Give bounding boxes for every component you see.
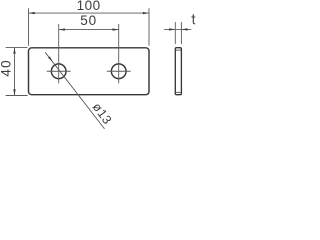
arrow right of 50 — [113, 28, 119, 30]
arrow bottom of 40 — [13, 89, 15, 95]
arrow right of 100 — [143, 12, 149, 14]
dimension 40 line — [14, 48, 16, 96]
side view top radius tangent line — [175, 49, 181, 51]
centerline vertical left hole / extension for 50 — [58, 24, 60, 83]
extension line top for 40 — [6, 47, 28, 49]
label t — [193, 14, 195, 24]
thickness dimension line — [164, 28, 191, 30]
svg-text:100: 100 — [77, 0, 101, 13]
thickness arrow right (points left) — [181, 28, 187, 30]
leader arrowhead — [48, 56, 53, 61]
svg-text:50: 50 — [80, 13, 97, 28]
centerline vertical right hole / extension for 50 — [118, 24, 120, 83]
extension line right for 100 — [148, 8, 150, 46]
thickness extension line right — [180, 22, 182, 44]
arrow top of 40 — [13, 48, 15, 54]
centerline horizontal right hole — [107, 70, 131, 72]
dimension 50 line — [59, 29, 119, 31]
dimension 100 line — [29, 12, 150, 14]
hole right — [111, 64, 126, 79]
extension line bottom for 40 — [6, 95, 28, 97]
arrow left of 50 — [59, 28, 65, 30]
arrow left of 100 — [29, 12, 35, 14]
thickness arrow left (points right) — [169, 28, 175, 30]
extension line left for 100 — [28, 8, 30, 46]
centerline horizontal left hole — [47, 70, 71, 72]
hole left — [51, 64, 66, 79]
svg-text:40: 40 — [0, 59, 14, 76]
side view bottom radius tangent line — [175, 91, 181, 93]
plate front view outline — [29, 48, 150, 95]
side view bar — [175, 48, 181, 95]
leader line for hole diameter — [45, 52, 104, 129]
thickness extension line left — [174, 22, 176, 44]
